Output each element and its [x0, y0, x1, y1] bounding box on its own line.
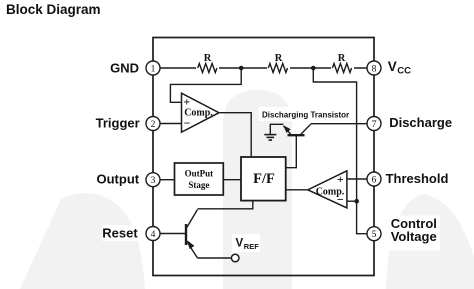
svg-text:Comp.: Comp.: [316, 186, 345, 197]
pin 3: [146, 173, 160, 187]
wire: Q1 collector to discharge pin7: [311, 123, 368, 125]
pin 6: [367, 172, 381, 186]
svg-text:GND: GND: [110, 61, 139, 76]
net label VREF: [236, 238, 260, 251]
svg-text:+: +: [337, 172, 344, 186]
op-amp comparator 1: [182, 93, 220, 132]
watermark blob bottom-left: [20, 193, 145, 289]
wire: discharge transistor Q1 base from F/F: [286, 135, 297, 168]
svg-text:R: R: [204, 53, 212, 64]
svg-text:CC: CC: [397, 66, 411, 77]
pin 2: [146, 117, 160, 131]
watermark blob bottom-right: [386, 194, 474, 289]
resistor R3: [331, 61, 354, 75]
terminal VREF (open circle): [231, 254, 239, 262]
svg-text:Voltage: Voltage: [391, 229, 437, 244]
wire: reset pin4 to transistor Q2 base: [160, 233, 185, 235]
svg-text:V: V: [236, 238, 244, 250]
pin 1: [146, 61, 160, 75]
svg-text:Output: Output: [97, 172, 140, 187]
svg-text:R: R: [275, 53, 283, 64]
svg-text:Discharge: Discharge: [389, 115, 452, 130]
pin 4: [146, 227, 160, 241]
svg-text:REF: REF: [244, 242, 259, 251]
svg-text:Block Diagram: Block Diagram: [6, 2, 101, 17]
svg-text:OutPut: OutPut: [185, 169, 214, 179]
svg-text:Reset: Reset: [102, 226, 138, 241]
pin 5: [367, 227, 381, 241]
svg-text:Stage: Stage: [188, 180, 209, 190]
wire: trigger pin2 to comparator 1 minus input: [160, 123, 181, 125]
wire: resistor divider rail (pin1 to pin8): [160, 67, 367, 69]
junction node A: [239, 66, 244, 71]
svg-text:3: 3: [151, 176, 156, 186]
transistor Q1 (discharging): [283, 124, 310, 135]
wire: comparator 1 output to F/F: [219, 113, 251, 157]
svg-text:Discharging Transistor: Discharging Transistor: [262, 111, 349, 120]
resistor R1: [196, 61, 219, 75]
wire: threshold pin6 to comparator 2 plus input: [347, 178, 367, 180]
wire: Q2 emitter to VREF terminal: [198, 257, 232, 259]
svg-text:R: R: [338, 53, 346, 64]
svg-text:2: 2: [151, 120, 156, 130]
wire: output pin3 to OutPut Stage: [160, 179, 175, 181]
svg-text:8: 8: [372, 65, 377, 75]
svg-text:+: +: [183, 94, 190, 108]
svg-text:1: 1: [151, 65, 156, 75]
wire: OutPut Stage to F/F: [223, 179, 241, 181]
watermark tower center: [223, 90, 292, 289]
label Control Voltage: [391, 216, 437, 244]
svg-text:7: 7: [372, 120, 377, 130]
svg-text:Trigger: Trigger: [96, 116, 140, 131]
label Control Voltage background: [385, 216, 440, 251]
label VREF background: [232, 234, 260, 252]
svg-text:F/F: F/F: [253, 171, 275, 187]
label Reset background: [102, 225, 142, 241]
junction: control voltage net at comp2 minus: [354, 199, 359, 204]
label background Discharging Transistor: [259, 107, 351, 121]
svg-text:Threshold: Threshold: [386, 171, 449, 186]
svg-text:5: 5: [372, 230, 377, 240]
pin 7: [367, 117, 381, 131]
transistor Q2 (reset): [186, 210, 198, 259]
wire: F/F bottom to reset transistor collector: [198, 201, 253, 209]
resistor R2: [267, 61, 290, 75]
block OutPut Stage: [175, 163, 224, 195]
pin 8: [367, 61, 381, 75]
wire: comparator 2 output to F/F: [286, 189, 309, 191]
label VCC: [388, 59, 411, 77]
junction node B: [311, 66, 316, 71]
op-amp comparator 2: [308, 171, 347, 208]
wire: Q1 emitter to ground: [270, 124, 283, 134]
svg-text:V: V: [388, 59, 397, 74]
svg-text:6: 6: [372, 176, 377, 186]
wire: node A to comparator 1 plus input: [170, 68, 241, 102]
ground: [264, 135, 276, 141]
svg-text:4: 4: [151, 230, 156, 240]
block F/F flip-flop: [241, 157, 286, 201]
wire: node B to control voltage net: [313, 68, 367, 234]
IC boundary rectangle: [153, 38, 374, 276]
svg-text:Comp.: Comp.: [184, 108, 213, 119]
wire: comparator 2 minus input to control voltage net: [347, 200, 357, 202]
